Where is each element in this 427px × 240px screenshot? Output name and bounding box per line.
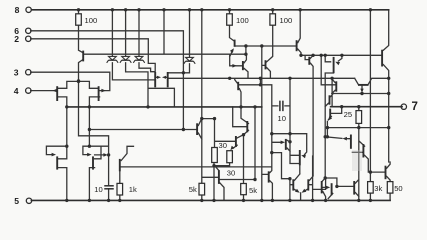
svg-text:30: 30: [219, 141, 227, 150]
svg-text:100: 100: [280, 16, 293, 25]
svg-text:3k: 3k: [374, 184, 382, 193]
svg-text:100: 100: [85, 16, 98, 25]
svg-text:8: 8: [15, 5, 20, 15]
svg-text:7: 7: [412, 101, 418, 113]
svg-text:2: 2: [14, 34, 19, 44]
svg-text:5k: 5k: [189, 185, 197, 194]
svg-text:5: 5: [14, 196, 19, 206]
svg-text:5k: 5k: [249, 186, 257, 195]
svg-text:4: 4: [14, 86, 19, 96]
svg-text:10: 10: [94, 185, 102, 194]
svg-text:1k: 1k: [129, 185, 137, 194]
svg-text:10: 10: [278, 114, 286, 123]
svg-text:50: 50: [394, 184, 402, 193]
svg-text:30: 30: [227, 169, 235, 178]
svg-text:100: 100: [236, 16, 249, 25]
svg-text:25: 25: [344, 110, 352, 119]
svg-text:3: 3: [14, 67, 19, 77]
